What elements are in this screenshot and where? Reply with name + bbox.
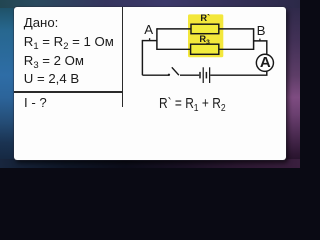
battery cell2 long plate	[209, 67, 210, 83]
wire switch to battery	[180, 74, 199, 76]
battery cell1 short plate	[199, 72, 201, 79]
wire battery to ammeter	[210, 71, 267, 75]
resistor R' label	[200, 14, 210, 23]
battery cell2 short plate	[206, 72, 208, 79]
node B label	[257, 24, 266, 37]
find line I	[24, 96, 47, 109]
switch contact dot	[168, 74, 170, 76]
battery cell1 long plate	[203, 67, 204, 83]
formula R' = R1 + R2	[159, 97, 226, 112]
wire ammeter to node B	[254, 41, 267, 55]
wire top branch right	[218, 28, 253, 30]
junction tick at node A	[149, 38, 151, 40]
background top band	[0, 0, 300, 8]
resistor R' body	[191, 24, 219, 34]
given line U	[24, 72, 79, 85]
yellow highlight over parallel resistors	[188, 14, 223, 57]
ammeter letter	[260, 55, 271, 70]
wire top branch left	[157, 28, 192, 30]
ammeter A1 circle	[256, 54, 273, 71]
given line R3	[24, 54, 84, 67]
background left band	[0, 0, 15, 168]
given line R1=R2	[24, 35, 114, 48]
resistor R3 label	[199, 35, 209, 44]
given block title	[24, 16, 59, 29]
junction tick at node B	[259, 39, 261, 41]
wire right junction bar	[253, 28, 255, 50]
wire node A lead	[142, 40, 157, 42]
given separator horizontal line	[14, 91, 123, 93]
wire left junction bar	[156, 28, 158, 50]
wire bottom to switch	[142, 74, 169, 76]
background right band	[285, 0, 300, 168]
wire bottom branch right	[218, 48, 253, 50]
background bottom band	[0, 159, 300, 169]
switch lever	[172, 67, 179, 75]
resistor R3 body	[191, 44, 219, 54]
wire bottom branch left	[157, 48, 191, 50]
white card	[14, 7, 286, 160]
given separator vertical line	[122, 7, 124, 107]
node A label	[144, 23, 153, 36]
circuit schematic svg	[0, 0, 300, 168]
wire left vertical	[141, 40, 143, 75]
